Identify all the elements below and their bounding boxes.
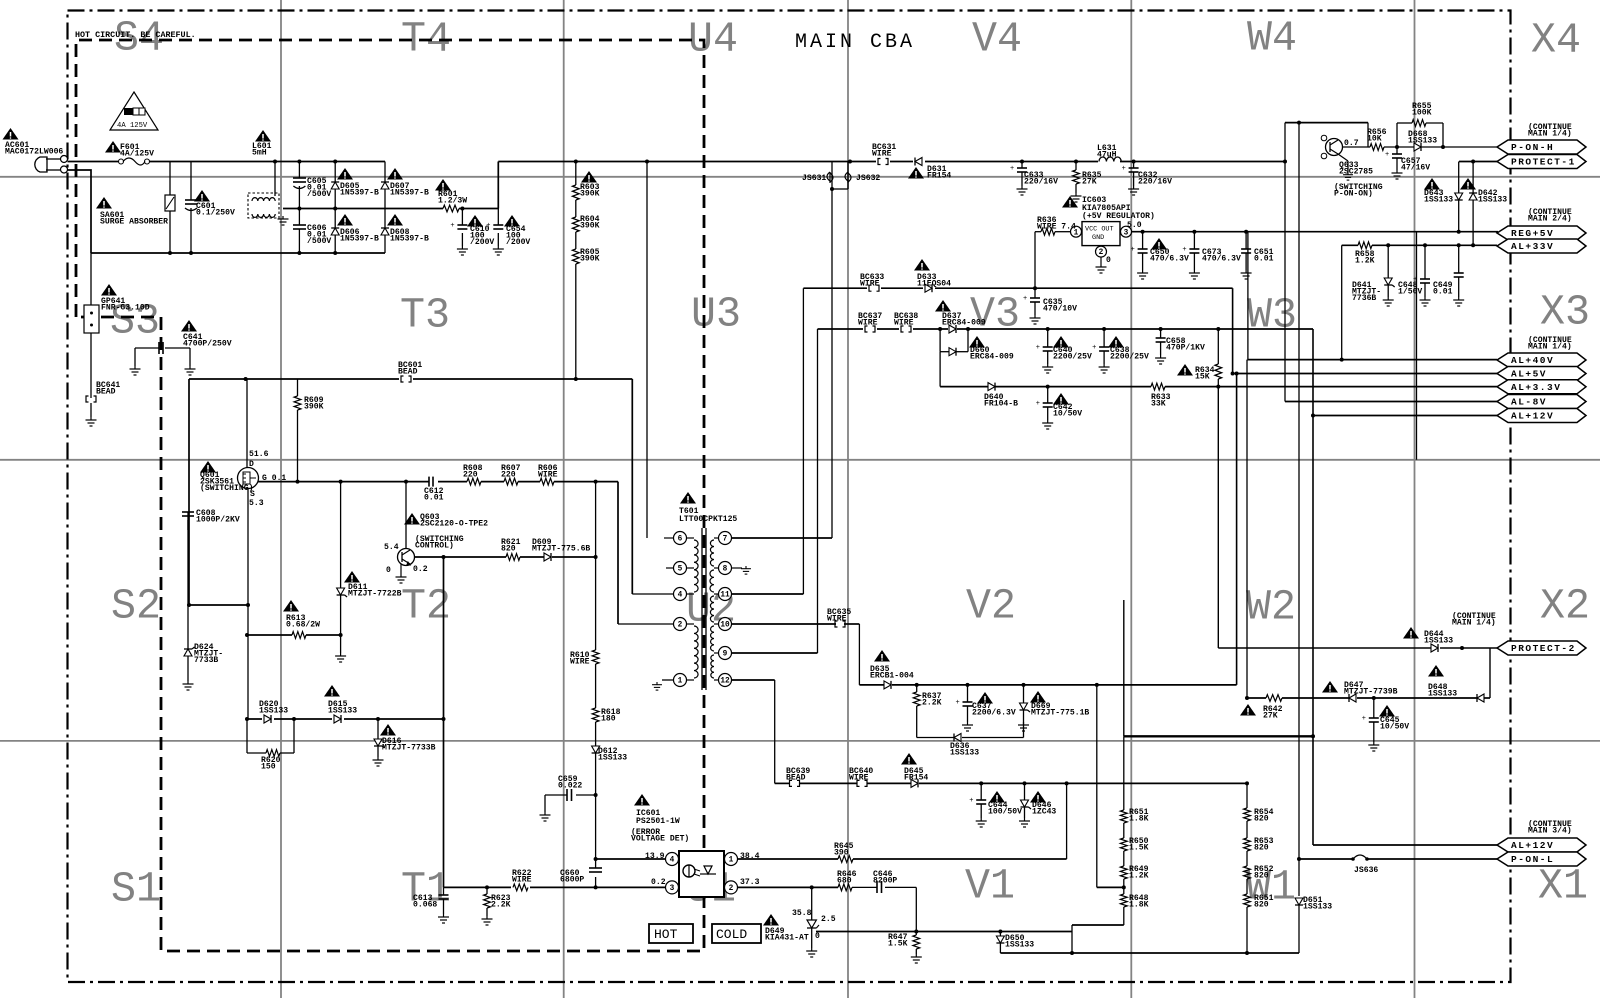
svg-text:5.4: 5.4: [384, 543, 399, 552]
warning Q601: [200, 461, 216, 473]
wire REG5V to AL40V riser: [1247, 232, 1249, 360]
diode D609: [544, 553, 551, 561]
wire al40 drop: [1246, 360, 1248, 698]
svg-text:1N5397-B: 1N5397-B: [390, 189, 429, 198]
wire collector top: [1285, 122, 1368, 124]
resistor R605: [572, 249, 579, 264]
wire pin3 line: [444, 886, 666, 888]
svg-text:0.068: 0.068: [413, 901, 437, 910]
svg-text:/200V: /200V: [506, 238, 530, 247]
resistor R648: [1123, 879, 1125, 894]
warning R601: [435, 179, 451, 191]
svg-text:MTZJT-775.1B: MTZJT-775.1B: [1031, 709, 1089, 718]
capacitor C649: [1458, 245, 1460, 273]
grid line vertical T/U: [563, 0, 565, 998]
wire D640 row: [939, 352, 941, 387]
capacitor C642: [1047, 387, 1049, 403]
svg-text:PS2501-1W: PS2501-1W: [636, 817, 680, 826]
capacitor C648: [1424, 245, 1426, 279]
warning SA601: [96, 197, 112, 209]
svg-text:6: 6: [678, 536, 683, 544]
capacitor C640: [1047, 329, 1049, 347]
warning F601: [105, 141, 121, 153]
svg-text:7733B: 7733B: [194, 656, 218, 665]
warning D647: [1322, 681, 1338, 693]
svg-text:7: 7: [723, 536, 728, 544]
svg-text:+: +: [1092, 344, 1096, 352]
svg-text:2: 2: [678, 622, 683, 630]
warning D646: [1030, 791, 1046, 803]
resistor R637: [916, 685, 918, 692]
transistor Q633 2SC2785: [1326, 139, 1343, 156]
svg-text:1000P/2KV: 1000P/2KV: [196, 516, 240, 525]
wire error amp drop: [443, 557, 445, 887]
diode D644: [1431, 644, 1438, 652]
wire protect2 riser: [1217, 387, 1219, 648]
warning T601: [680, 492, 696, 504]
warning C601: [194, 190, 210, 202]
capacitor C612: [428, 477, 430, 487]
ferrite bead BC633: [867, 284, 881, 292]
svg-text:+: +: [486, 222, 490, 230]
svg-text:8: 8: [723, 566, 728, 574]
svg-text:1N5397-B: 1N5397-B: [340, 189, 379, 198]
diode D650: [999, 932, 1001, 937]
warning D611: [344, 571, 360, 583]
svg-text:COLD: COLD: [716, 927, 747, 942]
ferrite bead BC637: [863, 325, 877, 333]
wire R601 to C654: [459, 208, 498, 210]
warning C610: [467, 215, 483, 227]
svg-text:MAC0172LW006: MAC0172LW006: [5, 148, 63, 157]
resistor R607: [504, 478, 518, 485]
svg-text:9: 9: [723, 651, 728, 659]
warning C637: [977, 692, 993, 704]
inductor L631: [1098, 156, 1120, 165]
svg-text:LTT00CPKT125: LTT00CPKT125: [679, 515, 737, 524]
svg-text:2SC2785: 2SC2785: [1339, 168, 1373, 177]
svg-text:/500V: /500V: [307, 237, 331, 246]
svg-text:P-ON-H: P-ON-H: [1511, 142, 1554, 153]
warning D643: [1424, 178, 1440, 190]
capacitor C659: [545, 794, 567, 796]
svg-text:1ZC43: 1ZC43: [1032, 808, 1056, 817]
diode D620: [262, 714, 274, 724]
wire kia row: [816, 931, 916, 933]
IC603 pin 3: [1121, 226, 1132, 237]
svg-text:MTZJT-7739B: MTZJT-7739B: [1344, 688, 1398, 697]
warning D645: [901, 753, 917, 765]
svg-text:0.022: 0.022: [558, 782, 582, 791]
svg-text:820: 820: [1254, 901, 1269, 910]
ground D611 R613: [340, 635, 342, 653]
svg-text:2: 2: [1099, 249, 1104, 257]
svg-text:4A 125V: 4A 125V: [117, 122, 148, 130]
svg-text:FNR-G3.10D: FNR-G3.10D: [101, 304, 150, 313]
capacitor C601: [190, 162, 192, 201]
wire BC637 line: [818, 328, 949, 330]
svg-text:U4: U4: [688, 15, 738, 63]
resistor R606: [540, 478, 554, 485]
svg-text:CONTROL): CONTROL): [415, 542, 454, 551]
svg-text:WIRE: WIRE: [827, 615, 847, 624]
grid line horizontal 4/3: [0, 176, 1600, 178]
connector PROTECT-1: [1497, 155, 1586, 169]
zener D624: [187, 605, 189, 649]
resistor R608: [467, 478, 481, 485]
svg-text:+: +: [1385, 151, 1389, 159]
svg-text:150: 150: [261, 763, 276, 772]
resistor R609: [297, 379, 299, 396]
capacitor C645: [1373, 698, 1375, 718]
wire pin4 line: [596, 858, 666, 860]
svg-text:W2: W2: [1246, 583, 1296, 631]
resistor R655 loop: [1396, 123, 1398, 147]
svg-text:6800P: 6800P: [560, 876, 584, 885]
svg-text:+: +: [1362, 715, 1366, 723]
resistor R642: [1266, 695, 1282, 702]
svg-text:2.2K: 2.2K: [922, 699, 942, 708]
capacitor C641: [135, 347, 159, 349]
svg-text:27K: 27K: [1263, 712, 1278, 721]
wire pin2 line: [738, 886, 839, 888]
wire pin9 riser: [732, 652, 818, 654]
svg-text:0.01: 0.01: [424, 494, 444, 503]
varistor GP641: [90, 253, 92, 305]
svg-text:180: 180: [601, 715, 616, 724]
resistor R620 loop: [246, 719, 248, 753]
fuse rating triangle 4A 125V: [110, 92, 158, 130]
svg-text:1SS133: 1SS133: [1424, 196, 1453, 205]
svg-text:P-ON-ON): P-ON-ON): [1334, 190, 1373, 199]
resistor R645: [838, 856, 853, 863]
warning D607: [387, 168, 403, 180]
svg-text:MTZJT-7722B: MTZJT-7722B: [348, 590, 402, 599]
svg-text:220: 220: [463, 471, 478, 480]
T601 pin 4: [674, 588, 687, 601]
capacitor C660: [595, 859, 597, 868]
svg-text:+: +: [1036, 400, 1040, 408]
warning C650: [1151, 238, 1167, 250]
U1 pin 3: [666, 881, 679, 894]
wire AC neutral: [68, 170, 92, 253]
connector AL+12V X1: [1497, 838, 1586, 852]
resistor R656: [1370, 144, 1384, 151]
resistor R649: [1123, 851, 1125, 866]
svg-text:1SS133: 1SS133: [328, 707, 357, 716]
wire T601 pin8 ground: [732, 567, 742, 569]
warning D605: [337, 168, 353, 180]
svg-text:KIA431-AT: KIA431-AT: [765, 934, 809, 943]
warning D669: [1030, 691, 1046, 703]
capacitor C658: [1160, 329, 1162, 338]
resistor R623: [486, 887, 488, 894]
svg-text:1.2K: 1.2K: [1129, 872, 1149, 881]
svg-text:1N5397-B: 1N5397-B: [340, 235, 379, 244]
svg-text:S: S: [250, 490, 255, 499]
diode D606: [331, 228, 339, 235]
wire AL12V feed: [1313, 415, 1497, 417]
warning D648: [1428, 665, 1444, 677]
svg-text:1SS133: 1SS133: [1005, 941, 1034, 950]
diode D635: [884, 681, 891, 689]
warning R603: [581, 171, 597, 183]
svg-text:5mH: 5mH: [252, 149, 267, 158]
diode D645: [911, 779, 918, 787]
wire pin11 riser: [732, 593, 803, 595]
wire T601 pin4 riser: [631, 379, 633, 594]
warning D635: [874, 650, 890, 662]
ferrite bead BC641: [90, 394, 92, 398]
svg-text:820: 820: [501, 545, 516, 554]
warning R634: [1177, 364, 1193, 376]
wire al12 riser X1: [1312, 329, 1314, 845]
svg-text:0.01: 0.01: [1433, 288, 1453, 297]
warning D637: [935, 300, 951, 312]
wire P-ON-L row: [1299, 858, 1353, 860]
wire fuse to L601: [149, 161, 275, 163]
svg-text:100K: 100K: [1412, 109, 1432, 118]
svg-text:(SWITCHING): (SWITCHING): [200, 484, 253, 493]
resistor R604: [572, 217, 579, 232]
resistor R651a: [1123, 736, 1125, 810]
svg-text:470/10V: 470/10V: [1043, 305, 1077, 314]
diode D637: [949, 325, 956, 333]
T601 pin 9: [719, 647, 732, 660]
wire Q603 base line: [414, 556, 506, 558]
svg-text:51.6: 51.6: [249, 450, 269, 459]
svg-text:470/6.3V: 470/6.3V: [1150, 255, 1189, 264]
resistor R613: [247, 634, 292, 636]
svg-text:S2: S2: [111, 582, 161, 630]
svg-text:FR104-B: FR104-B: [984, 400, 1018, 409]
svg-text:220/16V: 220/16V: [1138, 178, 1172, 187]
svg-text:V4: V4: [972, 15, 1022, 63]
wire Q603 collector: [405, 482, 407, 549]
transistor Q601 2SK3561: [246, 379, 248, 468]
svg-text:27K: 27K: [1082, 178, 1097, 187]
wire bridge mid rail: [283, 208, 385, 210]
svg-text:MTZJT-775.6B: MTZJT-775.6B: [532, 545, 590, 554]
svg-text:1N5397-B: 1N5397-B: [390, 235, 429, 244]
svg-text:0.2: 0.2: [413, 565, 428, 574]
svg-text:10K: 10K: [1367, 135, 1382, 144]
U1 pin 2: [725, 881, 738, 894]
warning Q603: [404, 513, 420, 525]
HOT label box: [649, 924, 693, 943]
warning D633: [914, 259, 930, 271]
wire riser al5: [1232, 288, 1234, 373]
warning C640: [1053, 336, 1069, 348]
hot area dashed border: [76, 40, 704, 951]
svg-text:BEAD: BEAD: [398, 368, 418, 377]
connector AL-8V: [1497, 395, 1586, 409]
wire PROTECT-1 line: [1459, 161, 1497, 163]
svg-text:AL+5V: AL+5V: [1511, 369, 1547, 380]
ferrite bead BC639: [790, 780, 793, 786]
T601 pin 7: [719, 532, 732, 545]
ferrite bead BC601: [399, 376, 413, 383]
svg-text:+: +: [1131, 246, 1135, 254]
capacitor C673: [1193, 232, 1195, 249]
svg-text:FR154: FR154: [927, 172, 951, 181]
wire T601 pin2 riser: [617, 482, 619, 624]
grid line horizontal 3/2: [0, 459, 1600, 461]
svg-text:2200/6.3V: 2200/6.3V: [972, 709, 1016, 718]
diode D636: [954, 734, 961, 742]
svg-text:390K: 390K: [580, 222, 600, 231]
wire V4 rail: [832, 161, 1285, 163]
diode D607: [384, 162, 386, 254]
svg-text:AL+3.3V: AL+3.3V: [1511, 382, 1561, 393]
svg-text:+: +: [1010, 165, 1014, 173]
wire AL3.3V feed: [1218, 386, 1497, 388]
warning C644: [989, 791, 1005, 803]
svg-text:1.2/3W: 1.2/3W: [438, 197, 467, 206]
svg-text:47/16V: 47/16V: [1401, 164, 1430, 173]
connector REG+5V: [1497, 226, 1586, 240]
svg-text:+: +: [956, 699, 960, 707]
wire snubber left drop: [188, 379, 190, 605]
capacitor C605: [298, 162, 300, 179]
wire ladder return: [1072, 924, 1124, 926]
svg-text:1/50V: 1/50V: [1398, 288, 1422, 297]
svg-text:0.68/2W: 0.68/2W: [286, 621, 320, 630]
svg-text:1SS133: 1SS133: [1428, 690, 1457, 699]
wire AC line to fuse: [68, 161, 119, 163]
capacitor C613: [443, 887, 445, 895]
wire BC639 rail: [775, 782, 790, 784]
warning D606: [337, 214, 353, 226]
svg-text:WIRE: WIRE: [570, 658, 590, 667]
warning R613: [283, 600, 299, 612]
svg-text:WIRE 7.4: WIRE 7.4: [1037, 223, 1076, 232]
wire +B top rail: [498, 161, 832, 163]
svg-text:JS636: JS636: [1354, 866, 1378, 875]
svg-text:JS631: JS631: [802, 174, 826, 183]
capacitor C635: [1034, 288, 1036, 298]
AC input plug AC601: [35, 157, 47, 172]
svg-text:820: 820: [1254, 872, 1269, 881]
resistor R610: [595, 482, 597, 650]
svg-text:X4: X4: [1531, 16, 1581, 64]
grid line vertical W/X: [1414, 0, 1416, 998]
svg-text:820: 820: [1254, 815, 1269, 824]
warning D615: [324, 685, 340, 697]
svg-text:3: 3: [670, 885, 675, 893]
zener D669: [1023, 685, 1025, 703]
jumper JS631: [829, 172, 831, 183]
ground L601: [278, 216, 289, 225]
IC603 pin 1: [1071, 226, 1082, 237]
warning D644: [1403, 627, 1419, 639]
svg-text:(+5V REGULATOR): (+5V REGULATOR): [1082, 212, 1155, 221]
wire JS crossover: [831, 162, 833, 190]
svg-text:220/16V: 220/16V: [1024, 178, 1058, 187]
svg-text:+: +: [450, 222, 454, 230]
svg-text:10: 10: [720, 622, 730, 630]
svg-text:/500V: /500V: [307, 190, 331, 199]
line filter L601: [248, 193, 279, 218]
svg-text:X3: X3: [1540, 288, 1590, 336]
zener D646: [1024, 783, 1026, 800]
connector AL+12V X3: [1497, 409, 1586, 423]
resistor R622 sym: [511, 882, 530, 893]
wire bridge top rail: [275, 161, 385, 163]
wire V3 rail to AL12 riser: [1218, 328, 1313, 330]
warning C638: [1108, 336, 1124, 348]
svg-text:BEAD: BEAD: [786, 774, 806, 783]
svg-text:S1: S1: [111, 865, 161, 913]
wire pin12 riser: [732, 679, 775, 681]
svg-text:1.5K: 1.5K: [1129, 844, 1149, 853]
T601 pin 11: [719, 588, 732, 601]
wire AL5V feed: [1233, 373, 1497, 375]
warning C654: [504, 215, 520, 227]
svg-text:2SC2120-O-TPE2: 2SC2120-O-TPE2: [420, 520, 488, 529]
resistor R652: [1246, 851, 1248, 866]
connector P-ON-L: [1497, 852, 1586, 866]
svg-text:AL+12V: AL+12V: [1511, 411, 1554, 422]
warning IC601: [634, 794, 650, 806]
wire D648 riser: [1489, 648, 1491, 698]
svg-text:1.2K: 1.2K: [1355, 257, 1375, 266]
svg-text:15K: 15K: [1195, 373, 1210, 382]
svg-text:AL+33V: AL+33V: [1511, 241, 1554, 252]
capacitor C651: [1245, 232, 1247, 249]
diode D643: [1458, 162, 1460, 194]
U1 pin 4: [666, 853, 679, 866]
wire pin7 riser: [732, 537, 832, 539]
U1 pin 1: [725, 853, 738, 866]
svg-text:ERC84-009: ERC84-009: [970, 353, 1014, 362]
svg-text:P-ON-L: P-ON-L: [1511, 854, 1554, 865]
svg-text:1SS133: 1SS133: [950, 749, 979, 758]
resistor R646: [838, 884, 852, 891]
ferrite bead BC638: [899, 325, 913, 333]
svg-text:FR154: FR154: [904, 774, 928, 783]
svg-text:220: 220: [501, 471, 516, 480]
diode D633: [923, 283, 935, 293]
svg-text:AL-8V: AL-8V: [1511, 397, 1547, 408]
svg-text:1: 1: [729, 857, 734, 865]
T601 pin 1: [674, 674, 687, 687]
svg-text:37.3: 37.3: [740, 878, 760, 887]
svg-text:390K: 390K: [304, 403, 324, 412]
svg-text:REG+5V: REG+5V: [1511, 228, 1554, 239]
resistor R647: [915, 932, 917, 936]
svg-text:MAIN 2/4): MAIN 2/4): [1528, 215, 1572, 224]
svg-text:VOLTAGE DET): VOLTAGE DET): [631, 835, 689, 844]
ferrite bead BC635: [835, 621, 838, 627]
svg-text:11: 11: [720, 592, 730, 600]
wire L601 top feed: [274, 162, 276, 197]
connector AL+33V: [1497, 239, 1586, 253]
svg-text:4A/125V: 4A/125V: [120, 150, 154, 159]
svg-text:5.0: 5.0: [1127, 221, 1142, 230]
T601 pin 2: [674, 618, 687, 631]
svg-text:MTZJT-7733B: MTZJT-7733B: [382, 744, 436, 753]
wire P-ON-H line: [1367, 123, 1369, 147]
svg-text:MAIN CBA: MAIN CBA: [795, 31, 915, 54]
svg-text:820: 820: [1254, 844, 1269, 853]
svg-text:3: 3: [1124, 229, 1129, 237]
zener D641: [1387, 245, 1389, 278]
resistor R653: [1246, 821, 1248, 838]
svg-text:4700P/250V: 4700P/250V: [183, 340, 232, 349]
wire Q601 source lower: [247, 605, 249, 719]
wire T601 pin6 riser: [646, 162, 648, 539]
